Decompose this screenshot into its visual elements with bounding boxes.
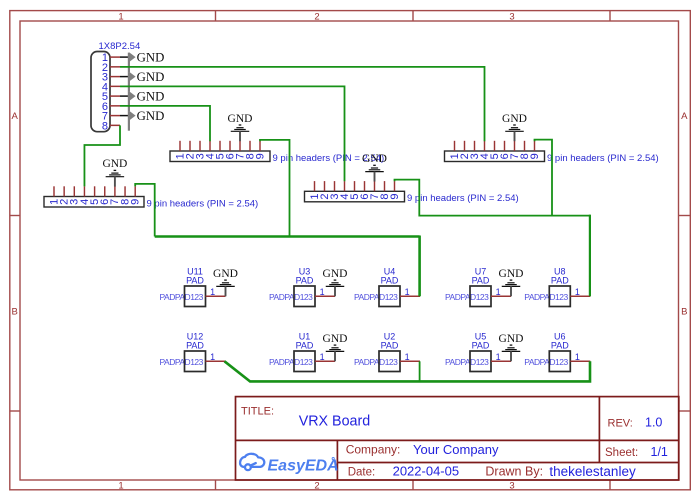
ground symbol GND (header J4 pin 7) (502, 113, 527, 141)
svg-text:GND: GND (213, 268, 238, 280)
pad U12 (160, 332, 226, 372)
pad U5 (445, 332, 511, 372)
svg-text:8: 8 (102, 120, 108, 132)
svg-text:1: 1 (210, 287, 215, 297)
svg-text:GND: GND (362, 153, 387, 165)
svg-text:1: 1 (575, 352, 580, 362)
wire: header J4 pin 9 join (535, 140, 553, 216)
pad U1 (269, 332, 335, 372)
svg-text:9: 9 (529, 153, 541, 159)
svg-text:GND: GND (499, 333, 524, 345)
svg-text:1: 1 (210, 352, 215, 362)
svg-text:PADPAD123: PADPAD123 (160, 357, 204, 367)
ground symbol GND (header J2 pin 7) (228, 113, 253, 141)
wire: bottom bus U12 to U6 (225, 361, 591, 381)
svg-text:PADPAD123: PADPAD123 (269, 357, 313, 367)
svg-text:1: 1 (405, 352, 410, 362)
ground symbol GND (header J3 pin 7) (362, 153, 387, 181)
pad U6 (524, 332, 590, 372)
wire: connector pin 2 to header J4 pin 4 (120, 67, 485, 141)
ground symbol GND (pad U5) (499, 333, 524, 361)
wire: horizontal bus (155, 235, 420, 238)
svg-text:GND: GND (323, 333, 348, 345)
svg-text:PADPAD123: PADPAD123 (354, 357, 398, 367)
svg-text:GND: GND (499, 268, 524, 280)
ground symbol GND (pad U7) (499, 268, 524, 296)
svg-text:1: 1 (320, 352, 325, 362)
svg-text:9: 9 (389, 193, 401, 199)
svg-text:thekelestanley: thekelestanley (549, 464, 636, 479)
pad U11 (160, 267, 226, 307)
ground net flag GND (connector pin 1) (120, 50, 164, 72)
svg-text:1: 1 (118, 11, 123, 22)
svg-text:GND: GND (502, 113, 527, 125)
svg-text:1: 1 (320, 287, 325, 297)
EasyEDA logo (240, 454, 339, 475)
svg-text:1: 1 (575, 287, 580, 297)
svg-text:1: 1 (496, 352, 501, 362)
svg-text:PAD: PAD (381, 276, 399, 286)
svg-text:PAD: PAD (472, 276, 490, 286)
wire: connector pin 4 to header J3 pin 4 (120, 86, 345, 181)
svg-text:EasyEDA: EasyEDA (268, 457, 339, 474)
svg-text:9 pin headers (PIN = 2.54): 9 pin headers (PIN = 2.54) (547, 153, 659, 164)
svg-text:GND: GND (137, 50, 165, 64)
svg-text:Date:: Date: (348, 467, 376, 479)
svg-text:9: 9 (254, 153, 266, 159)
svg-text:PADPAD123: PADPAD123 (354, 292, 398, 302)
svg-text:1: 1 (118, 480, 123, 491)
svg-text:Your Company: Your Company (413, 442, 499, 457)
ground symbol GND (pad U3) (323, 268, 348, 296)
svg-text:PAD: PAD (296, 341, 314, 351)
title block (236, 397, 679, 480)
9-pin header J2 (170, 141, 384, 164)
svg-text:PAD: PAD (186, 341, 204, 351)
wire: drop to pad U8 pin 1 (589, 215, 591, 297)
wire: header J2 pin 9 down to bus (260, 140, 290, 237)
wire: header J1 pin 9 down to bus (135, 184, 155, 237)
svg-text:REV:: REV: (608, 418, 633, 430)
svg-text:B: B (681, 306, 687, 317)
pad U4 (354, 267, 420, 307)
ground net flag GND (connector pin 3) (120, 70, 164, 92)
ground symbol GND (pad U11) (213, 268, 238, 296)
pad U3 (269, 267, 335, 307)
svg-text:PAD: PAD (551, 341, 569, 351)
svg-text:B: B (12, 306, 18, 317)
connector P1 1X8P2.54 (91, 41, 140, 132)
svg-text:Sheet:: Sheet: (605, 447, 638, 459)
ground net flag GND (connector pin 7) (120, 109, 164, 131)
pad U8 (524, 267, 590, 307)
svg-text:GND: GND (323, 268, 348, 280)
svg-text:9 pin headers (PIN = 2.54): 9 pin headers (PIN = 2.54) (407, 193, 519, 204)
svg-text:TITLE:: TITLE: (241, 406, 274, 418)
svg-text:A: A (681, 111, 688, 122)
svg-text:PADPAD123: PADPAD123 (269, 292, 313, 302)
svg-text:PADPAD123: PADPAD123 (524, 292, 568, 302)
ground net flag GND (connector pin 5) (120, 89, 164, 111)
svg-text:3: 3 (509, 480, 514, 491)
svg-text:2: 2 (314, 11, 319, 22)
ground symbol GND (pad U1) (323, 333, 348, 361)
svg-text:PAD: PAD (472, 341, 490, 351)
pad U2 (354, 332, 420, 372)
svg-text:2: 2 (314, 480, 319, 491)
svg-text:3: 3 (509, 11, 514, 22)
svg-text:9 pin headers (PIN = 2.54): 9 pin headers (PIN = 2.54) (147, 198, 259, 209)
svg-text:VRX Board: VRX Board (299, 414, 371, 430)
svg-text:GND: GND (228, 113, 253, 125)
svg-text:PAD: PAD (186, 276, 204, 286)
wire: connector pin 8 to header J1 pin 4 (84, 125, 120, 186)
svg-text:1.0: 1.0 (645, 416, 662, 430)
wire: bus drop to pad U4 pin 1 (418, 236, 421, 297)
svg-text:2022-04-05: 2022-04-05 (393, 464, 460, 479)
svg-text:1/1: 1/1 (651, 445, 668, 459)
svg-text:PADPAD123: PADPAD123 (524, 357, 568, 367)
svg-text:PAD: PAD (296, 276, 314, 286)
wire: connector pin 6 to header J2 pin 4 (120, 106, 210, 141)
ground symbol GND (header J1 pin 7) (102, 158, 127, 186)
wire: header J3 pin 9 across (395, 180, 590, 216)
svg-text:GND: GND (137, 70, 165, 84)
9-pin header J1 (44, 186, 258, 209)
svg-text:Company:: Company: (346, 443, 401, 457)
svg-text:A: A (12, 111, 19, 122)
9-pin header J4 (445, 141, 659, 164)
svg-text:Drawn By:: Drawn By: (485, 464, 543, 478)
svg-text:1: 1 (405, 287, 410, 297)
9-pin header J3 (305, 181, 519, 204)
svg-text:PAD: PAD (551, 276, 569, 286)
svg-text:PAD: PAD (381, 341, 399, 351)
svg-text:GND: GND (102, 158, 127, 170)
svg-text:PADPAD123: PADPAD123 (445, 357, 489, 367)
svg-text:PADPAD123: PADPAD123 (445, 292, 489, 302)
pad U7 (445, 267, 511, 307)
svg-text:PADPAD123: PADPAD123 (160, 292, 204, 302)
svg-text:GND: GND (137, 89, 165, 103)
svg-text:GND: GND (137, 109, 165, 123)
svg-text:1X8P2.54: 1X8P2.54 (99, 41, 141, 52)
svg-text:1: 1 (496, 287, 501, 297)
wire: pad U2 pin 1 to bottom bus (419, 361, 421, 381)
svg-text:9: 9 (130, 199, 142, 205)
